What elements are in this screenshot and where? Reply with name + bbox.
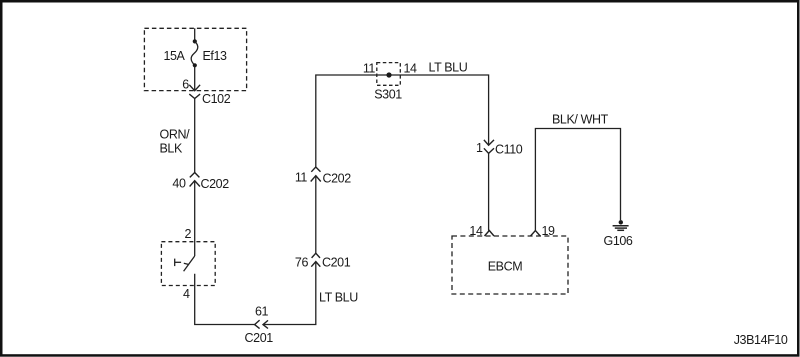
svg-text:C201: C201 — [245, 331, 274, 345]
wire — [316, 75, 489, 167]
svg-text:61: 61 — [255, 305, 269, 319]
svg-text:4: 4 — [183, 287, 190, 301]
connector C110 — [484, 140, 494, 154]
svg-text:76: 76 — [295, 255, 309, 269]
svg-text:40: 40 — [172, 177, 186, 191]
wire — [194, 181, 196, 256]
connector C201 (pin 61) — [255, 320, 268, 329]
svg-text:11: 11 — [295, 171, 308, 185]
svg-text:BLK/ WHT: BLK/ WHT — [552, 113, 609, 127]
connector C201 (pin 76) — [311, 253, 320, 267]
svg-text:C110: C110 — [495, 142, 523, 156]
EBCM pin 19 connector — [531, 231, 541, 237]
wire — [194, 67, 196, 91]
label ORN/ BLK — [160, 127, 191, 155]
svg-text:15A: 15A — [163, 49, 185, 63]
svg-text:2: 2 — [184, 227, 191, 241]
switch dashed enclosure — [161, 242, 215, 286]
svg-text:EBCM: EBCM — [488, 260, 523, 274]
svg-text:LT BLU: LT BLU — [429, 61, 468, 75]
svg-text:C202: C202 — [201, 177, 230, 191]
fuse Ef13 — [191, 39, 198, 67]
connector C102 — [189, 85, 200, 99]
wire LT BLU — [263, 262, 316, 325]
switch blade — [184, 256, 195, 271]
ground G106 — [613, 220, 629, 230]
svg-text:14: 14 — [404, 62, 418, 76]
svg-text:C201: C201 — [322, 256, 351, 270]
switch actuator — [175, 259, 189, 267]
svg-text:C202: C202 — [323, 171, 352, 185]
svg-text:6: 6 — [182, 78, 189, 92]
wire — [488, 153, 490, 230]
svg-text:S301: S301 — [374, 88, 402, 102]
svg-text:19: 19 — [542, 224, 556, 238]
svg-text:G106: G106 — [604, 234, 633, 248]
svg-text:ORN/: ORN/ — [160, 127, 191, 141]
EBCM dashed enclosure — [452, 236, 568, 294]
svg-text:LT BLU: LT BLU — [319, 290, 358, 304]
wire ORN/BLK — [194, 99, 196, 173]
svg-text:C102: C102 — [202, 92, 231, 106]
svg-text:1: 1 — [476, 141, 483, 155]
fuse block dashed enclosure — [144, 28, 246, 90]
wire BLK/WHT — [535, 129, 620, 231]
splice S301 — [377, 63, 401, 86]
svg-text:BLK: BLK — [160, 142, 183, 156]
connector C202 (pin 40) — [190, 173, 200, 187]
EBCM pin 14 connector — [485, 231, 495, 237]
wire — [194, 28, 196, 40]
wire — [315, 176, 317, 254]
svg-text:Ef13: Ef13 — [203, 49, 228, 63]
svg-text:11: 11 — [363, 62, 376, 76]
svg-text:J3B14F10: J3B14F10 — [734, 333, 788, 347]
connector C202 (pin 11) — [311, 167, 321, 182]
wire — [195, 274, 255, 325]
